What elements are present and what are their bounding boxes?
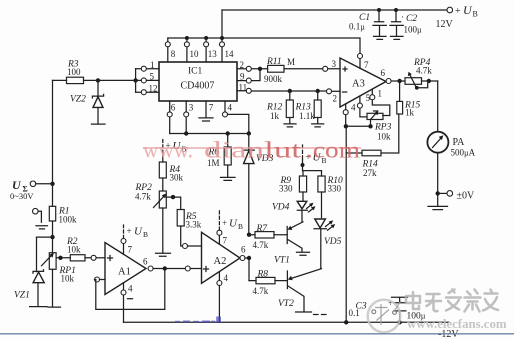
svg-text:VD5: VD5 <box>324 237 342 247</box>
node RP3 wiper <box>368 124 372 128</box>
terminal input common with ground <box>33 208 48 229</box>
svg-text:·: · <box>401 12 404 22</box>
svg-text:R11: R11 <box>266 57 282 67</box>
zener VZ2 <box>70 80 105 124</box>
svg-text:11: 11 <box>239 83 248 93</box>
svg-text:IC1: IC1 <box>188 67 203 77</box>
A2 inverting input <box>183 244 188 249</box>
resistor R9 330 <box>279 176 307 200</box>
A3 pin 7 <box>359 59 361 69</box>
svg-text:3: 3 <box>332 59 337 69</box>
diode VD3 <box>243 134 273 235</box>
svg-text:4: 4 <box>128 284 133 294</box>
svg-text:10: 10 <box>190 49 200 59</box>
svg-text:U: U <box>12 178 22 192</box>
svg-text:0~30V: 0~30V <box>10 191 34 201</box>
resistor R11 1M 900k <box>260 57 322 84</box>
A1 pin 4 <box>123 283 125 290</box>
svg-text:PA: PA <box>453 137 466 148</box>
node A3 pin4 / -12V line <box>344 124 348 128</box>
op-amp A3 <box>340 58 386 107</box>
zener VZ1 <box>14 237 47 307</box>
svg-text:3.3k: 3.3k <box>186 220 202 230</box>
A3 pin 3 <box>322 68 340 70</box>
svg-text:www.: www. <box>143 138 193 163</box>
op-amp A2 <box>202 232 241 283</box>
svg-text:1: 1 <box>378 89 383 99</box>
node A1 output/feedback <box>163 266 167 270</box>
meter PA 500uA <box>427 81 475 193</box>
svg-text:4.7k: 4.7k <box>253 240 269 250</box>
svg-text:900k: 900k <box>264 74 283 84</box>
svg-text:13: 13 <box>208 49 218 59</box>
pin 1 <box>136 68 159 70</box>
svg-text:A3: A3 <box>352 79 365 90</box>
svg-text:4: 4 <box>351 103 356 113</box>
svg-text:A2: A2 <box>214 256 227 267</box>
wire +12V top rail <box>222 9 447 11</box>
potentiometer RP1 10k <box>42 237 76 307</box>
svg-text:1k: 1k <box>405 108 415 118</box>
svg-text:7: 7 <box>223 236 228 246</box>
svg-text:4.7k: 4.7k <box>135 192 151 202</box>
resistor R4 30k <box>159 140 186 192</box>
pin 4 (IC bottom) <box>224 101 226 112</box>
A1 + input <box>91 255 96 260</box>
A2 + input <box>185 266 190 271</box>
svg-text:7: 7 <box>128 245 133 255</box>
svg-text:U: U <box>229 218 238 230</box>
svg-text:6: 6 <box>241 245 246 255</box>
A3 pin 2 <box>332 90 340 92</box>
pin 3 (IC bottom) <box>185 101 187 134</box>
svg-text:+: + <box>455 6 461 17</box>
node UE/R1 <box>50 182 54 186</box>
svg-text:5: 5 <box>150 72 155 82</box>
svg-text:3: 3 <box>189 103 194 113</box>
pin 7 (IC bottom) ground <box>199 101 213 121</box>
wire R3 net <box>53 79 136 81</box>
capacitor C3 0.1 <box>349 302 367 319</box>
resistor R14 27k <box>346 114 399 178</box>
svg-text:U: U <box>463 3 473 17</box>
A3 pin 5 <box>360 96 367 117</box>
wire RP2 wiper to R5 <box>166 197 180 209</box>
svg-text:9: 9 <box>240 72 245 82</box>
pin 11 (IC right) <box>237 90 326 92</box>
svg-text:8: 8 <box>171 49 176 59</box>
svg-text:C2: C2 <box>406 14 417 24</box>
node A2 output / R7 branch <box>247 233 251 237</box>
resistor R12 1k <box>266 89 296 127</box>
svg-text:±0V: ±0V <box>457 191 475 202</box>
resistor R15 1k <box>397 81 421 118</box>
op-amp A1 <box>105 243 146 295</box>
svg-text:100µ: 100µ <box>404 25 423 35</box>
transistor VT2 <box>278 269 326 315</box>
svg-text:2: 2 <box>240 60 245 70</box>
node bracket/R3 wire <box>133 78 137 82</box>
potentiometer RP4 4.7k <box>405 58 438 90</box>
wire A1 feedback loop <box>96 269 165 310</box>
node pin3/bus <box>184 131 188 135</box>
pin 2 (IC right) <box>237 68 260 70</box>
potentiometer RP2 4.7k <box>135 183 171 256</box>
LED VD4 <box>272 201 316 222</box>
node C4 / rail <box>397 320 401 324</box>
svg-text:C1: C1 <box>359 13 370 23</box>
terminal +-0V <box>428 191 475 210</box>
svg-text:0.1: 0.1 <box>349 308 360 318</box>
svg-text:A1: A1 <box>118 267 131 278</box>
resistor R8 4.7k <box>249 270 287 297</box>
op-amp IC1 CD4007 box <box>159 62 237 101</box>
terminal UE input <box>10 178 53 201</box>
wire left column vertical <box>52 80 54 183</box>
wire UB to R9/R10 <box>303 160 322 177</box>
node R3/VZ2 <box>96 78 100 82</box>
svg-text:dianlut: dianlut <box>204 138 302 163</box>
capacitor C2 100u <box>390 8 422 39</box>
svg-text:4.7k: 4.7k <box>416 66 432 76</box>
node R6/bus <box>226 131 230 135</box>
svg-text:12: 12 <box>149 84 158 94</box>
svg-text:M: M <box>287 57 295 67</box>
watermark red www.dianlut.com <box>143 138 361 163</box>
UB stub for R9/R10 <box>302 145 304 160</box>
wire pin14 vertical to top rail <box>221 10 223 42</box>
svg-text:6: 6 <box>381 68 386 78</box>
svg-text:R7: R7 <box>256 224 269 234</box>
transistor VT1 <box>274 222 310 266</box>
svg-text:4.7k: 4.7k <box>253 286 269 296</box>
svg-text:+: + <box>127 226 132 236</box>
blue bottom border line <box>0 333 514 335</box>
node output/R15 <box>397 79 401 83</box>
svg-text:.com: .com <box>306 138 360 163</box>
svg-text:VD4: VD4 <box>272 203 290 213</box>
pin 10 <box>186 38 188 62</box>
svg-text:5: 5 <box>366 93 371 103</box>
blue remnants on rail <box>175 317 221 323</box>
svg-text:B: B <box>473 10 478 19</box>
svg-text:1.1k: 1.1k <box>299 111 315 121</box>
svg-text:100k: 100k <box>59 215 78 225</box>
wire pin4 node to wiper <box>346 125 371 127</box>
svg-text:7: 7 <box>209 103 214 113</box>
svg-text:1k: 1k <box>270 111 280 121</box>
A2 pin 4 <box>218 272 220 281</box>
watermark elecfans logo circle <box>368 300 401 333</box>
resistor R3 100 <box>67 77 84 83</box>
wire left-pin bracket <box>135 69 137 93</box>
svg-text:10k: 10k <box>61 274 75 284</box>
terminal +UB <box>447 7 453 13</box>
pin 14 <box>221 47 223 62</box>
capacitor C4 100u <box>388 297 426 322</box>
LED VD5 <box>314 219 342 269</box>
wire pin4 to VD3 column <box>228 114 249 133</box>
svg-text:1: 1 <box>150 60 155 70</box>
resistor R6 1M <box>207 134 235 181</box>
node -12V feed <box>344 320 348 324</box>
node junction pin14/UB rail <box>220 36 224 40</box>
resistor R7 4.7k <box>249 224 287 250</box>
node pin2/pin9/R11 <box>258 67 262 71</box>
svg-text:VZ1: VZ1 <box>14 291 30 301</box>
node R1/RP1/VZ1 <box>50 235 54 239</box>
svg-text:VZ2: VZ2 <box>70 95 86 105</box>
capacitor C1 0.1u <box>349 8 386 39</box>
svg-text:7: 7 <box>364 60 369 70</box>
svg-text:0.1µ: 0.1µ <box>349 22 365 32</box>
pin 8 <box>167 38 169 62</box>
wire UB distribution rail <box>168 38 360 54</box>
svg-text:500µA: 500µA <box>451 148 476 158</box>
pin 5 <box>136 79 159 81</box>
svg-text:10k: 10k <box>67 245 81 255</box>
A3 pin 1 <box>372 89 390 115</box>
wire -12V feed vertical <box>345 126 347 322</box>
svg-text:10k: 10k <box>377 132 391 142</box>
svg-text:330: 330 <box>328 184 342 194</box>
svg-text:100: 100 <box>67 67 81 77</box>
svg-text:www.elecfans.com: www.elecfans.com <box>407 317 507 331</box>
A1 - input <box>95 277 100 282</box>
pin 9 (IC right) <box>237 71 260 81</box>
A2 pin 6 output <box>240 256 245 261</box>
svg-text:B: B <box>238 222 243 231</box>
svg-text:14: 14 <box>225 49 235 59</box>
svg-text:12V: 12V <box>436 19 454 30</box>
wire pins 6/3 bus <box>170 133 249 135</box>
A1 pin 6 output <box>148 266 153 271</box>
svg-text:U: U <box>134 226 143 238</box>
resistor R1 100k <box>49 184 77 237</box>
wire bracket to VZ1 <box>37 236 53 238</box>
svg-text:4: 4 <box>228 103 233 113</box>
svg-text:30k: 30k <box>170 173 184 183</box>
A1 pin 7 <box>123 244 125 255</box>
resistor R5 3.3k <box>177 210 202 247</box>
svg-text:B: B <box>143 230 148 239</box>
A2 pin 7 <box>218 235 220 244</box>
svg-text:VT1: VT1 <box>274 256 290 266</box>
A3 pin 4 <box>345 104 347 126</box>
svg-text:VT2: VT2 <box>278 299 294 309</box>
svg-text:+: + <box>222 218 227 228</box>
A3 pin 6 output <box>386 79 391 84</box>
svg-text:6: 6 <box>143 257 148 267</box>
node pin4/bus <box>247 131 251 135</box>
pin 13 <box>205 38 207 62</box>
watermark chinese characters (stroke approximation) <box>406 290 498 312</box>
svg-text:2: 2 <box>333 94 338 104</box>
resistor R2 10k <box>56 237 91 261</box>
wire -12V bottom rail <box>124 321 450 323</box>
resistor R10 330 <box>318 176 343 218</box>
svg-text:330: 330 <box>279 184 293 194</box>
svg-text:R8: R8 <box>257 270 269 280</box>
pin 12 <box>136 91 159 93</box>
pin 6 (IC bottom) <box>169 101 171 134</box>
svg-text:4: 4 <box>224 273 229 283</box>
potentiometer RP3 10k <box>367 111 392 142</box>
svg-text:CD4007: CD4007 <box>181 81 215 92</box>
svg-text:6: 6 <box>171 103 176 113</box>
svg-text:27k: 27k <box>363 168 377 178</box>
resistor R13 1.1k <box>295 89 324 127</box>
